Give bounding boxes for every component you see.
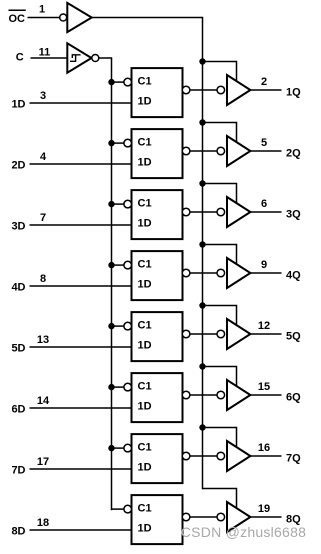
- wire 7D input to latch: [30, 468, 132, 470]
- svg-text:1D: 1D: [11, 98, 25, 110]
- svg-text:8D: 8D: [11, 525, 25, 537]
- wire enable tap to buffer row 3: [203, 184, 237, 204]
- wire enable tap to buffer row 1: [203, 62, 237, 82]
- wire latch U3 output to buffer row 3: [190, 211, 218, 213]
- svg-text:12: 12: [258, 320, 270, 332]
- svg-text:5: 5: [261, 137, 267, 149]
- junction dot enable line row 6: [199, 363, 205, 369]
- latch U5 (transparent D latch, C1/1D): [124, 312, 190, 361]
- wire C line to C1 input row 2: [112, 142, 125, 144]
- junction dot C line row 1: [108, 79, 114, 85]
- 3-state output buffer row 8 (inverting-bubble input): [217, 502, 250, 532]
- junction dot C line row 5: [108, 323, 114, 329]
- wire 2D input to latch: [30, 163, 132, 165]
- svg-text:4D: 4D: [11, 281, 25, 293]
- wire output 4Q: [250, 272, 281, 274]
- wire OC input: [28, 17, 60, 19]
- svg-text:2Q: 2Q: [286, 148, 301, 160]
- svg-text:1D: 1D: [138, 401, 152, 413]
- wire latch U5 output to buffer row 5: [190, 333, 218, 335]
- latch U3 (transparent D latch, C1/1D): [124, 190, 190, 239]
- svg-text:3: 3: [40, 90, 46, 102]
- svg-text:1D: 1D: [138, 96, 152, 108]
- svg-text:C1: C1: [138, 198, 152, 210]
- wire latch U1 output to buffer row 1: [190, 89, 218, 91]
- wire enable tap to buffer row 6: [203, 367, 237, 387]
- wire enable tap to buffer row 8: [203, 489, 237, 509]
- svg-text:11: 11: [39, 46, 51, 58]
- wire 6D input to latch: [30, 407, 132, 409]
- wire C line to C1 input row 7: [112, 447, 125, 449]
- wire 1D input to latch: [30, 102, 132, 104]
- svg-text:13: 13: [37, 334, 49, 346]
- wire C line to C1 input row 8: [112, 508, 125, 510]
- wire enable tap to buffer row 7: [203, 428, 237, 448]
- junction dot C line row 3: [108, 201, 114, 207]
- latch U1 (transparent D latch, C1/1D): [124, 68, 190, 117]
- svg-text:7D: 7D: [11, 464, 25, 476]
- junction dot C line row 7: [108, 445, 114, 451]
- svg-text:4Q: 4Q: [286, 270, 301, 282]
- svg-text:1: 1: [39, 4, 45, 16]
- junction dot C line row 4: [108, 262, 114, 268]
- wire 5D input to latch: [30, 346, 132, 348]
- wire C line to C1 input row 5: [112, 325, 125, 327]
- 3-state output buffer row 3 (inverting-bubble input): [217, 197, 250, 227]
- svg-text:C1: C1: [138, 381, 152, 393]
- wire enable tap to buffer row 2: [203, 123, 237, 143]
- svg-text:19: 19: [258, 503, 270, 515]
- svg-text:6D: 6D: [11, 403, 25, 415]
- svg-text:9: 9: [261, 259, 267, 271]
- svg-text:1D: 1D: [138, 279, 152, 291]
- wire output 1Q: [250, 89, 281, 91]
- svg-text:5D: 5D: [11, 342, 25, 354]
- wire 4D input to latch: [30, 285, 132, 287]
- buffer G1 OC enable driver (active-low input bubble): [60, 3, 92, 32]
- wire enable line vertical (OE bus): [202, 18, 204, 490]
- 3-state output buffer row 7 (inverting-bubble input): [217, 441, 250, 471]
- junction dot enable line row 4: [199, 241, 205, 247]
- wire C line vertical (latch clock bus): [111, 58, 113, 510]
- wire C line to C1 input row 4: [112, 264, 125, 266]
- svg-text:6Q: 6Q: [286, 392, 301, 404]
- 3-state output buffer row 5 (inverting-bubble input): [217, 319, 250, 349]
- junction dot enable line row 2: [199, 119, 205, 125]
- latch U2 (transparent D latch, C1/1D): [124, 129, 190, 178]
- junction dot enable line row 7: [199, 424, 205, 430]
- junction dot enable line row 1: [199, 58, 205, 64]
- svg-text:C1: C1: [138, 259, 152, 271]
- svg-text:C1: C1: [138, 137, 152, 149]
- wire enable tap to buffer row 5: [203, 306, 237, 326]
- wire C line to C1 input row 1: [112, 81, 125, 83]
- svg-text:OC: OC: [9, 13, 26, 25]
- svg-text:16: 16: [258, 442, 270, 454]
- svg-text:1D: 1D: [138, 462, 152, 474]
- svg-text:3Q: 3Q: [286, 209, 301, 221]
- wire output 2Q: [250, 150, 281, 152]
- wire latch U2 output to buffer row 2: [190, 150, 218, 152]
- svg-text:C1: C1: [138, 442, 152, 454]
- wire C line to C1 input row 3: [112, 203, 125, 205]
- svg-text:5Q: 5Q: [286, 331, 301, 343]
- wire output 7Q: [250, 455, 281, 457]
- junction dot C line row 6: [108, 384, 114, 390]
- wire latch U8 output to buffer row 8: [190, 516, 218, 518]
- svg-text:6: 6: [261, 198, 267, 210]
- wire output 8Q: [250, 516, 281, 518]
- svg-text:7: 7: [40, 212, 46, 224]
- 3-state output buffer row 6 (inverting-bubble input): [217, 380, 250, 410]
- svg-text:1D: 1D: [138, 523, 152, 535]
- svg-text:CSDN @zhusl6688: CSDN @zhusl6688: [181, 524, 306, 540]
- svg-text:1Q: 1Q: [286, 87, 301, 99]
- 3-state output buffer row 1 (inverting-bubble input): [217, 75, 250, 105]
- svg-text:18: 18: [37, 517, 49, 529]
- svg-text:C1: C1: [138, 76, 152, 88]
- junction dot C line row 2: [108, 140, 114, 146]
- svg-text:1D: 1D: [138, 218, 152, 230]
- svg-text:17: 17: [37, 456, 49, 468]
- svg-text:3D: 3D: [11, 220, 25, 232]
- wire output 3Q: [250, 211, 281, 213]
- wire latch U6 output to buffer row 6: [190, 394, 218, 396]
- input label OC (pin 1, active low): [9, 10, 26, 25]
- 3-state output buffer row 4 (inverting-bubble input): [217, 258, 250, 288]
- svg-text:2: 2: [261, 76, 267, 88]
- svg-text:7Q: 7Q: [286, 453, 301, 465]
- latch U8 (transparent D latch, C1/1D): [124, 495, 190, 544]
- wire 8D input to latch: [30, 529, 132, 531]
- svg-text:8: 8: [40, 273, 46, 285]
- svg-text:C: C: [16, 51, 24, 63]
- wire latch U7 output to buffer row 7: [190, 455, 218, 457]
- svg-text:C1: C1: [138, 320, 152, 332]
- wire C buffer output to C line: [99, 57, 112, 59]
- wire C input: [31, 57, 68, 59]
- wire OC buffer output to enable line: [92, 17, 204, 19]
- latch U4 (transparent D latch, C1/1D): [124, 251, 190, 300]
- wire 3D input to latch: [30, 224, 132, 226]
- wire latch U4 output to buffer row 4: [190, 272, 218, 274]
- svg-text:1D: 1D: [138, 340, 152, 352]
- latch U6 (transparent D latch, C1/1D): [124, 373, 190, 422]
- svg-text:2D: 2D: [11, 159, 25, 171]
- svg-text:14: 14: [37, 395, 50, 407]
- junction dot enable line row 5: [199, 302, 205, 308]
- svg-text:C1: C1: [138, 503, 152, 515]
- latch U7 (transparent D latch, C1/1D): [124, 434, 190, 483]
- wire C line to C1 input row 6: [112, 386, 125, 388]
- svg-text:4: 4: [40, 151, 47, 163]
- 3-state output buffer row 2 (inverting-bubble input): [217, 136, 250, 166]
- svg-text:15: 15: [258, 381, 270, 393]
- wire output 6Q: [250, 394, 281, 396]
- junction dot enable line row 3: [199, 180, 205, 186]
- svg-text:1D: 1D: [138, 157, 152, 169]
- wire output 5Q: [250, 333, 281, 335]
- schmitt inverter G2 on C (hysteresis symbol, output bubble): [67, 43, 99, 72]
- wire enable tap to buffer row 4: [203, 245, 237, 265]
